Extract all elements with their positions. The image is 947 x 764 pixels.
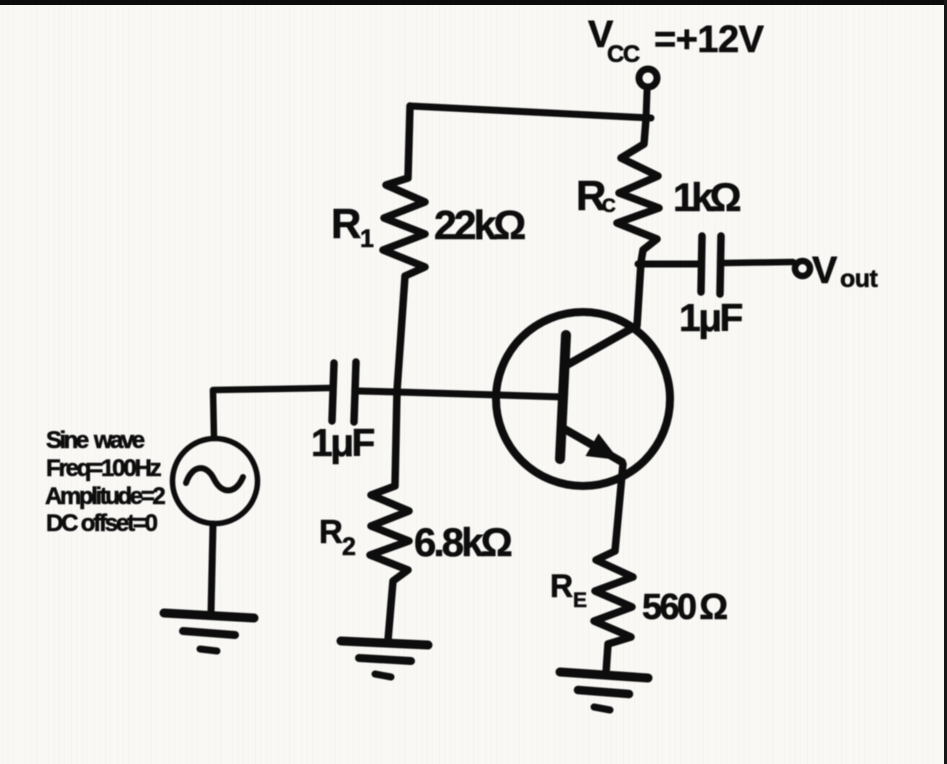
svg-text:out: out (840, 265, 879, 293)
svg-text:V: V (812, 250, 838, 292)
Vcc terminal circle (639, 69, 657, 87)
wire: top rail from R1 corner to Vcc tee (410, 106, 651, 118)
ground G2 under R2: top bar (341, 641, 428, 645)
capacitor C1 1uF input: left plate (332, 363, 334, 421)
capacitor C2 1uF output: left plate (701, 236, 702, 292)
svg-text:22kΩ: 22kΩ (434, 202, 525, 248)
ground G3: short bar (594, 707, 610, 710)
svg-text:Sine wave: Sine wave (46, 427, 145, 454)
ground G1 under source: top bar (164, 613, 254, 618)
svg-text:1kΩ: 1kΩ (673, 176, 740, 220)
ground G3: middle bar (578, 690, 629, 694)
resistor RC 1k zigzag with leads (617, 119, 659, 326)
svg-text:DC offset=0: DC offset=0 (46, 510, 158, 537)
transistor Q1 circle (496, 312, 670, 486)
wire: Vcc stem down to top rail (646, 91, 647, 119)
ground G3 under RE: top bar (560, 672, 648, 678)
transistor Q1 collector diagonal (567, 326, 636, 365)
svg-text:R: R (331, 200, 361, 247)
wire: source top to input cap (corner) (213, 388, 330, 438)
transistor Q1 emitter diagonal (561, 427, 622, 462)
sine symbol inside source (186, 468, 243, 490)
svg-text:CC: CC (607, 41, 640, 68)
resistor R2 6.8k zigzag with leads (370, 391, 409, 640)
transistor Q1 base bar (560, 335, 566, 459)
svg-text:6.8kΩ: 6.8kΩ (414, 521, 512, 565)
ground G1: short bar (200, 649, 217, 651)
ground G2: short bar (375, 674, 391, 677)
svg-text:Freq=100Hz: Freq=100Hz (46, 455, 162, 482)
resistor R1 22k zigzag with leads (383, 106, 425, 391)
capacitor C1: right plate (354, 362, 356, 422)
svg-text:R: R (319, 513, 343, 550)
wire: collector node to output capacitor (638, 261, 698, 268)
wire: output cap to Vout terminal (724, 262, 793, 263)
svg-text:1: 1 (360, 225, 374, 253)
transistor Q1 emitter arrowhead (586, 434, 620, 461)
Vout terminal circle (795, 261, 810, 276)
wire: source bottom to ground G1 (211, 524, 213, 613)
svg-text:1μF: 1μF (679, 297, 743, 340)
svg-text:C: C (602, 196, 616, 217)
svg-text:E: E (573, 589, 587, 612)
svg-text:1μF: 1μF (311, 422, 375, 465)
sine source V1 circle (173, 439, 258, 524)
svg-text:R: R (550, 568, 573, 604)
svg-text:560 Ω: 560 Ω (642, 586, 727, 627)
ground G1: middle bar (183, 631, 235, 635)
svg-text:=+12V: =+12V (654, 19, 765, 61)
ground G2: middle bar (359, 658, 411, 661)
resistor RE 560 zigzag with leads (594, 464, 633, 673)
wire: input cap to base (through R1/R2 junction) (358, 391, 564, 397)
capacitor C2: right plate (720, 236, 721, 294)
svg-text:Amplitude=2: Amplitude=2 (45, 483, 165, 510)
svg-text:2: 2 (342, 533, 356, 561)
